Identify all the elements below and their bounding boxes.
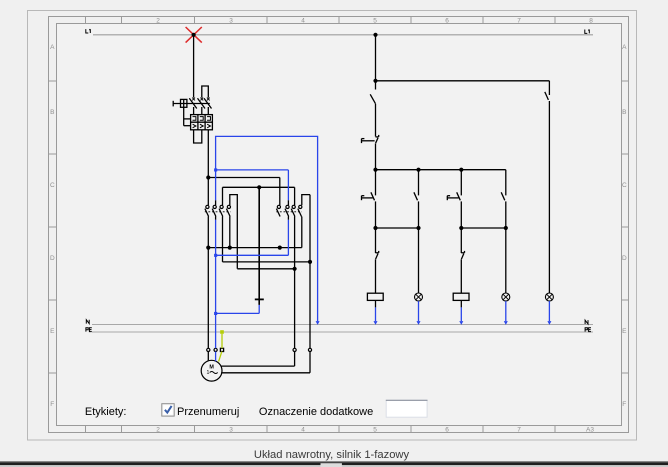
svg-text:3: 3	[229, 17, 233, 24]
svg-text:5: 5	[373, 17, 377, 24]
svg-text:8: 8	[589, 17, 593, 24]
svg-text:5: 5	[373, 426, 377, 433]
svg-text:2: 2	[156, 17, 160, 24]
svg-text:7: 7	[517, 426, 521, 433]
svg-text:6: 6	[445, 426, 449, 433]
svg-text:B: B	[622, 109, 626, 116]
svg-text:7: 7	[517, 17, 521, 24]
svg-text:F: F	[622, 401, 626, 408]
svg-text:2: 2	[156, 426, 160, 433]
svg-text:D: D	[50, 255, 55, 262]
svg-text:D: D	[622, 255, 627, 262]
svg-text:4: 4	[301, 17, 305, 24]
svg-text:E: E	[622, 328, 627, 335]
svg-text:1: 1	[206, 370, 209, 376]
svg-text:Układ nawrotny, silnik 1-fazow: Układ nawrotny, silnik 1-fazowy	[254, 449, 410, 461]
svg-text:A: A	[622, 44, 627, 51]
svg-text:A3: A3	[586, 426, 594, 433]
svg-text:3: 3	[229, 426, 233, 433]
svg-text:6: 6	[445, 17, 449, 24]
svg-text:Przenumeruj: Przenumeruj	[177, 406, 239, 418]
svg-text:M: M	[209, 365, 214, 371]
svg-text:4: 4	[301, 426, 305, 433]
svg-text:B: B	[50, 109, 54, 116]
svg-text:C: C	[50, 182, 55, 189]
svg-text:A: A	[50, 44, 55, 51]
svg-text:Etykiety:: Etykiety:	[85, 406, 127, 418]
svg-text:Oznaczenie dodatkowe: Oznaczenie dodatkowe	[259, 406, 373, 418]
svg-text:E: E	[50, 328, 55, 335]
svg-text:F: F	[50, 401, 54, 408]
svg-text:C: C	[622, 182, 627, 189]
